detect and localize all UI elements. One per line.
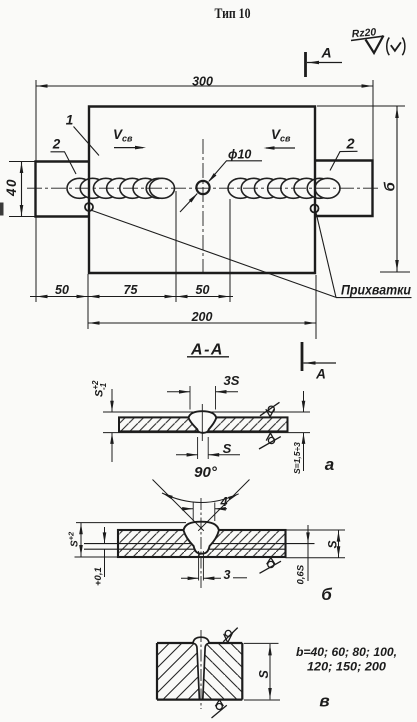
svg-text:ϕ10: ϕ10 [228,148,251,162]
svg-text:2: 2 [52,137,61,152]
svg-text:S: S [257,670,271,679]
svg-text:б: б [321,585,332,604]
svg-text:3: 3 [224,568,231,582]
svg-text:S=1,5÷3: S=1,5÷3 [292,442,302,474]
svg-text:а: а [325,455,334,474]
svg-text:40: 40 [4,178,19,197]
svg-text:+0,1: +0,1 [93,567,104,586]
svg-text:0,6S: 0,6S [296,564,307,584]
svg-text:50: 50 [55,283,69,297]
svg-text:A-A: A-A [190,342,224,359]
svg-text:S: S [223,441,232,456]
svg-text:б: б [382,182,399,192]
svg-text:2: 2 [345,137,354,153]
svg-text:120; 150; 200: 120; 150; 200 [307,660,386,674]
svg-text:300: 300 [192,75,213,89]
svg-text:1: 1 [66,113,74,128]
svg-text:A: A [315,367,326,382]
svg-text:b=40; 60; 80; 100,: b=40; 60; 80; 100, [296,645,397,659]
svg-text:S: S [326,540,340,548]
svg-text:200: 200 [191,310,213,324]
svg-text:Тип 10: Тип 10 [215,6,251,22]
svg-text:50: 50 [196,283,210,297]
svg-text:90°: 90° [194,464,218,481]
svg-text:в: в [319,692,329,711]
svg-text:4: 4 [220,495,228,509]
svg-text:Прихватки: Прихватки [341,283,412,298]
svg-text:75: 75 [124,283,139,297]
svg-text:3S: 3S [224,373,240,388]
svg-text:A: A [320,45,331,61]
